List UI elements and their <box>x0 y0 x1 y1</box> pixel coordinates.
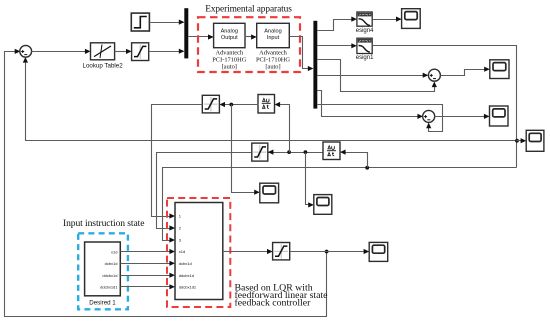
wire derivative D1 out to saturation S1 <box>221 104 259 106</box>
wire junction up into derivative D1 <box>276 105 290 153</box>
wire demux out1 to esign4 <box>318 20 356 31</box>
svg-text:x1d: x1d <box>111 249 117 254</box>
svg-text:ddcbx1d: ddcbx1d <box>179 273 194 278</box>
wire mux M1 to Analog Output <box>189 36 213 38</box>
text Based on LQR annotation <box>235 283 329 309</box>
svg-text:Input: Input <box>267 35 280 41</box>
wire sum U3 to scope SC3 <box>435 116 489 118</box>
node junction 289 <box>287 150 291 154</box>
svg-text:Desired 1: Desired 1 <box>89 299 116 306</box>
svg-text:dcbx1d: dcbx1d <box>105 261 118 266</box>
wire saturation S2 out to LQR port2 <box>157 153 252 229</box>
wire sum U2 to scope SC2 <box>441 70 489 76</box>
wire demux out5 to sum U3 left <box>318 91 422 117</box>
wire sum U1 to Lookup Table2 <box>32 51 90 53</box>
wire long feedback y141 to sum bottom <box>26 59 517 141</box>
wire Analog Input to demux M2 <box>290 37 313 69</box>
mux M1 <box>184 8 188 58</box>
block filter esign1 <box>356 38 374 61</box>
node junction at 367 <box>365 166 369 170</box>
svg-text:esign4: esign4 <box>356 28 374 34</box>
block LQR controller <box>175 203 223 300</box>
wire demux out2 to esign1 <box>318 45 356 47</box>
block Lookup Table2 <box>91 43 115 60</box>
wire demux out6 to sum U3 bottom <box>318 105 443 132</box>
wire Lookup Table2 to saturation S0 <box>115 51 131 53</box>
block saturation S0 <box>132 43 149 61</box>
wire Desired ddcbx1d to LQR <box>121 275 174 277</box>
block scope SC5 <box>260 183 279 203</box>
svg-text:Advantech: Advantech <box>259 49 287 56</box>
sum U1 input arrow bottom <box>23 57 28 63</box>
wire saturation S0 to mux M1 <box>149 51 184 53</box>
svg-text:Analog: Analog <box>221 28 238 34</box>
node junction 305 <box>304 150 308 154</box>
block Desired 1 <box>85 242 121 296</box>
annotation cyan dashed box <box>78 233 128 309</box>
block scope SC3 <box>490 106 509 126</box>
wire port3 approach <box>163 239 174 241</box>
svg-text:Lookup Table2: Lookup Table2 <box>83 62 124 69</box>
wire junction to scope SC4 <box>517 140 525 142</box>
wire junction up into derivative D2 <box>342 153 368 168</box>
wire step to mux M1 <box>150 22 184 24</box>
svg-text:PCI-1710HG: PCI-1710HG <box>212 56 246 63</box>
block filter esign4 <box>356 12 374 34</box>
block scope SC1 <box>402 9 421 29</box>
svg-text:Output: Output <box>221 35 238 41</box>
wire derivative D2 out to saturation S2 <box>269 152 323 154</box>
wire junction down to scope SC5 <box>232 105 259 193</box>
wire demux out3 to sum U2 bottom <box>318 60 435 92</box>
svg-text:feedback controller: feedback controller <box>235 298 312 309</box>
block step <box>131 13 149 31</box>
block saturation S2 <box>252 143 268 161</box>
wire Analog Output to Analog Input <box>245 36 256 38</box>
block scope SC2 <box>490 60 509 79</box>
demux M2 <box>313 21 317 109</box>
wire Desired dcbx1d to LQR <box>121 263 174 265</box>
block scope SC4 <box>526 130 544 151</box>
wire saturation S3 to scope SC6 <box>290 251 369 253</box>
svg-text:ddcbx1d1: ddcbx1d1 <box>100 284 118 289</box>
node junction 231 <box>229 103 233 107</box>
svg-text:ddcbx1d1: ddcbx1d1 <box>179 284 197 289</box>
annotation red dashed box experimental apparatus <box>198 17 300 72</box>
svg-text:Advantech: Advantech <box>215 49 243 56</box>
wire esign4 to scope SC1 <box>373 19 401 21</box>
block saturation S3 <box>273 243 290 260</box>
block derivative D1 <box>258 95 275 114</box>
node junction after saturation3 <box>325 250 329 254</box>
wire esign1 long line right and down <box>373 46 517 168</box>
svg-text:dcbx1d: dcbx1d <box>179 261 192 266</box>
svg-text:Analog: Analog <box>264 28 281 34</box>
svg-text:ddcbx1d: ddcbx1d <box>102 273 117 278</box>
sum U1 input arrow left <box>15 49 21 54</box>
node junction at x517 <box>515 139 519 143</box>
wire Desired ddcbx1d1 to LQR <box>121 286 174 288</box>
block saturation S1 <box>202 95 219 113</box>
svg-text:x1d: x1d <box>179 249 185 254</box>
svg-text:esign1: esign1 <box>356 55 374 61</box>
wire junction down into scope SC7 <box>306 153 313 205</box>
block scope SC7 <box>314 195 332 215</box>
op sum U1 <box>20 45 32 57</box>
wire LQR out to saturation S3 <box>223 251 272 253</box>
block derivative D2 <box>323 142 340 160</box>
block scope SC6 <box>369 242 388 261</box>
svg-text:PCI-1710HG: PCI-1710HG <box>256 56 290 63</box>
wire demux out4 to sum U2 left <box>318 75 428 77</box>
annotation red dashed box LQR <box>167 198 230 307</box>
svg-text:Experimental apparatus: Experimental apparatus <box>205 4 292 14</box>
svg-text:[auto]: [auto] <box>265 64 280 71</box>
wire saturation S1 out to LQR port1 <box>152 105 203 217</box>
op sum U3 <box>423 110 435 122</box>
wire bottom line y167.7 from x517 to port3 drop <box>163 168 517 239</box>
wire feedback bottom loop to sum input <box>5 52 327 317</box>
block Analog Output <box>214 23 245 47</box>
op sum U2 <box>428 69 440 81</box>
block Analog Input <box>257 23 290 47</box>
wire Desired x1d to LQR <box>121 251 174 253</box>
svg-text:[auto]: [auto] <box>222 64 237 71</box>
svg-text:Input instruction state: Input instruction state <box>63 218 144 229</box>
